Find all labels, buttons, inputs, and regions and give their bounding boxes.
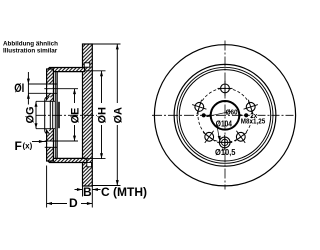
svg-text:D: D bbox=[69, 196, 78, 210]
hat top wall (hatched) bbox=[47, 68, 85, 72]
dim A: line, arrows, label bbox=[112, 44, 124, 186]
leader to bolt circle (from Ø104) bbox=[217, 127, 220, 141]
note text: Abbildung ähnlich / Illustration similar bbox=[3, 41, 58, 55]
hat joint circle outer bbox=[174, 64, 276, 166]
label F(x) bbox=[15, 139, 33, 153]
bolt circle (dashed) bbox=[198, 88, 252, 142]
dim D line and arrows bbox=[47, 202, 93, 205]
dim B extension lines bbox=[82, 186, 84, 197]
bore bottom chamfer bbox=[46, 129, 51, 134]
bottom notch at ring/hat joint bbox=[87, 163, 92, 167]
center bore circle bbox=[211, 101, 240, 130]
svg-text:F: F bbox=[15, 139, 22, 153]
dim E: extension lines bbox=[44, 88, 78, 90]
leader to left M8 hole bbox=[206, 111, 231, 117]
dim E: line, arrows, label bbox=[70, 89, 82, 141]
stud hole upper right bbox=[241, 97, 260, 116]
svg-text:(x): (x) bbox=[23, 141, 33, 150]
top bolt hole gap bbox=[47, 84, 53, 93]
M8 hole right (filled) bbox=[244, 113, 248, 117]
dim B arrows bbox=[75, 188, 101, 191]
dim A: extension lines bbox=[92, 43, 120, 45]
centerline (section) bbox=[36, 114, 97, 116]
dim H: line, arrows, label bbox=[97, 71, 109, 159]
svg-text:M8x1,25: M8x1,25 bbox=[241, 116, 265, 125]
svg-text:ØI: ØI bbox=[14, 83, 24, 95]
svg-text:Ø104: Ø104 bbox=[216, 119, 233, 128]
svg-text:Illustration similar: Illustration similar bbox=[3, 48, 58, 55]
stud hole upper left bbox=[190, 97, 209, 116]
svg-text:B: B bbox=[83, 185, 92, 199]
leader arrow to right M8 hole bbox=[239, 114, 244, 117]
friction ring (hatched) bbox=[83, 44, 93, 186]
svg-text:Ø60: Ø60 bbox=[226, 108, 238, 117]
hat mounting wall (hatched) bbox=[47, 69, 54, 161]
svg-text:Ø10,5: Ø10,5 bbox=[215, 148, 236, 157]
bore edge lines bbox=[36, 100, 55, 102]
bottom service hole gap bbox=[47, 141, 53, 147]
friction inner circle bbox=[179, 70, 270, 161]
friction surface boundary lines on ring bbox=[83, 70, 106, 72]
svg-text:ØE: ØE bbox=[70, 108, 82, 124]
dim D extension line bbox=[46, 166, 48, 208]
center bore gap bbox=[46, 101, 54, 128]
dim I: line and arrows bbox=[27, 72, 30, 105]
bore step lines bbox=[49, 101, 51, 128]
bottom hole edge lines bbox=[45, 140, 78, 142]
top hole edge lines bbox=[28, 83, 57, 85]
vertical centerline bbox=[224, 41, 226, 190]
pilot boss face bbox=[45, 97, 47, 134]
stud hole lower right bbox=[230, 126, 251, 147]
horizontal centerline bbox=[152, 114, 250, 116]
leader arrow to Ø10,5 hole bbox=[221, 148, 224, 151]
hat bottom wall (hatched) bbox=[47, 158, 87, 162]
service hole Ø10,5 bbox=[217, 135, 232, 150]
dim G: line and arrows bbox=[35, 101, 38, 128]
svg-text:ØA: ØA bbox=[112, 107, 124, 124]
bore top chamfer bbox=[46, 96, 51, 101]
top notch at ring/hat joint bbox=[84, 63, 90, 67]
svg-text:ØH: ØH bbox=[97, 107, 109, 124]
inner hat lines bbox=[54, 72, 56, 159]
M8 hole left (filled) bbox=[202, 113, 206, 117]
svg-text:Abbildung ähnlich: Abbildung ähnlich bbox=[3, 41, 58, 48]
svg-text:ØG: ØG bbox=[25, 106, 37, 123]
svg-text:C (MTH): C (MTH) bbox=[101, 185, 147, 199]
outer circle bbox=[154, 45, 295, 186]
stud hole lower left bbox=[199, 126, 220, 147]
stud hole top bbox=[218, 81, 233, 96]
hat joint circle middle bbox=[177, 67, 273, 163]
F leader arrow bbox=[32, 140, 46, 143]
